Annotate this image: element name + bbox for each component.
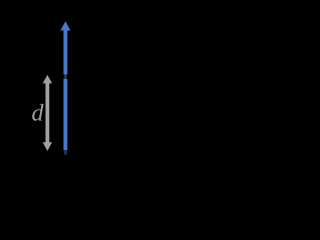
double arrow (gray distance marker): [43, 75, 52, 151]
arrow shaft upper dash (blue vector): [64, 30, 68, 75]
arrow shaft lower dash (blue vector): [64, 79, 68, 150]
arrow head (blue vector, pointing up): [60, 21, 70, 30]
wire (thin dark-blue axis line behind blue arrow): [64, 26, 66, 155]
label d: [32, 104, 43, 121]
